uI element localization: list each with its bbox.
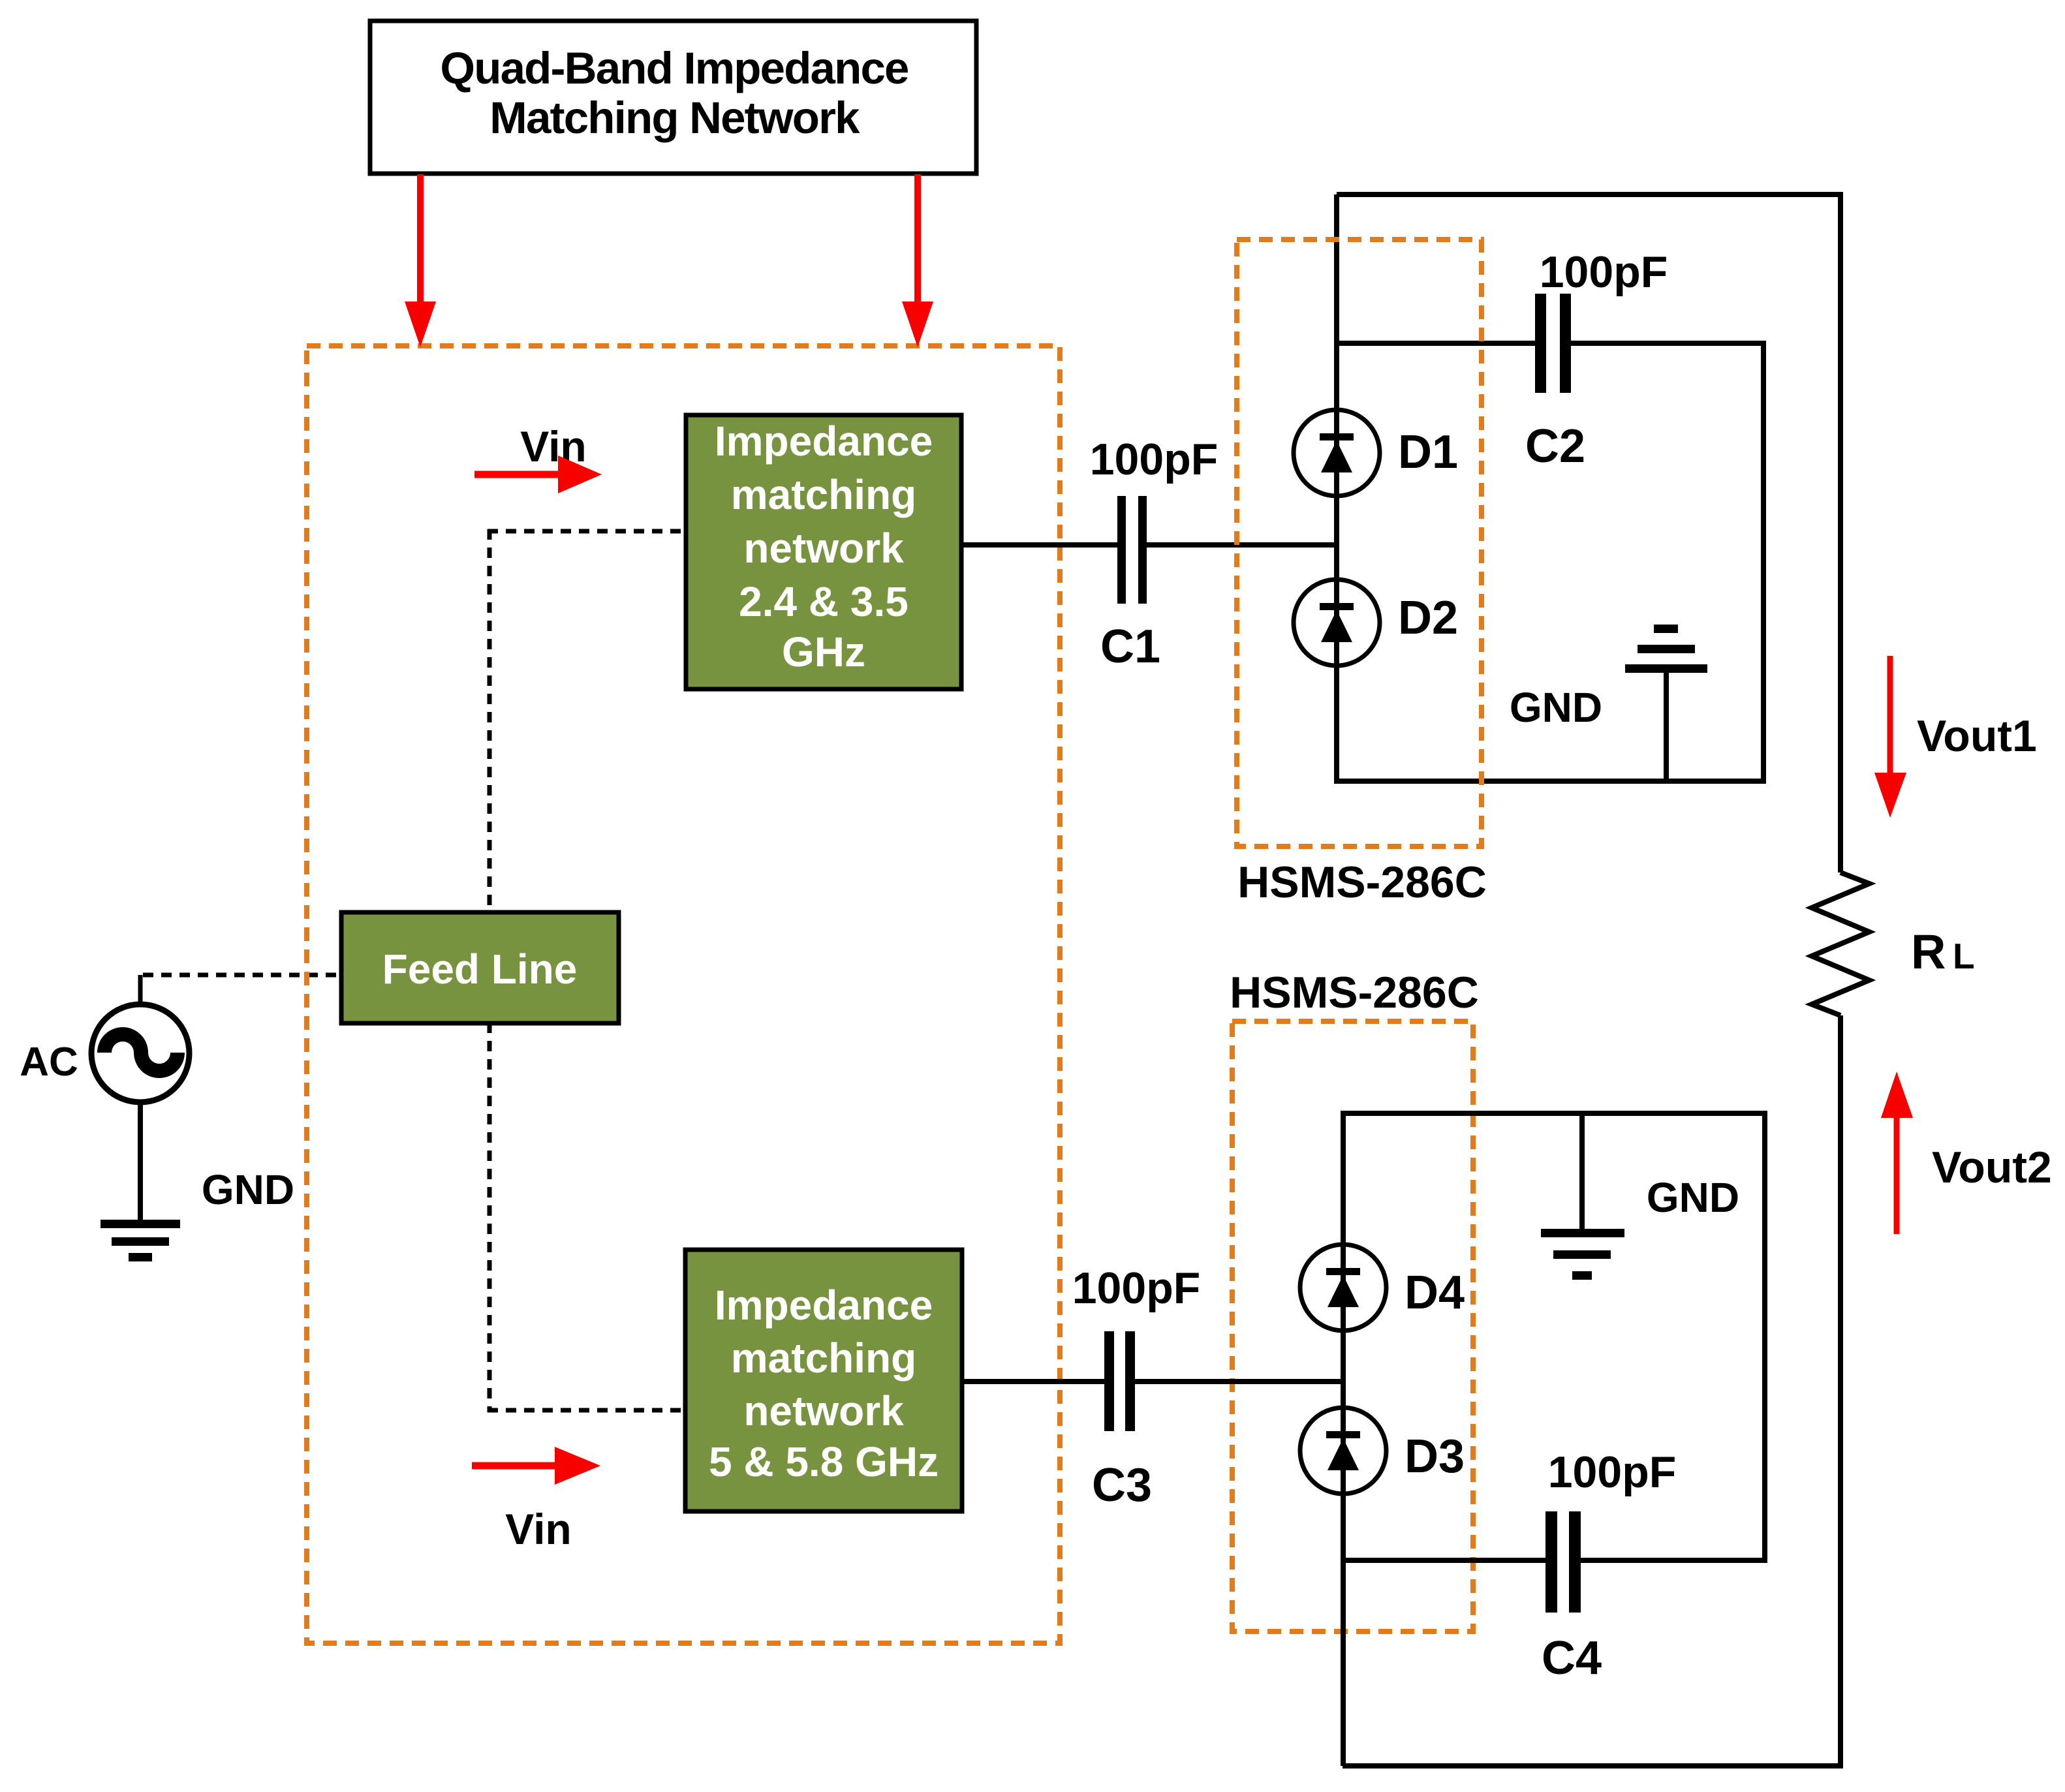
resistor RL	[1812, 873, 1869, 1015]
svg-text:GHz: GHz	[782, 628, 865, 675]
svg-text:Quad-Band Impedance: Quad-Band Impedance	[440, 43, 908, 93]
impedance matching network 5 & 5.8 GHz block	[685, 1250, 962, 1511]
svg-text:Vout2: Vout2	[1932, 1143, 2052, 1192]
Quad-Band Impedance Matching Network box	[370, 21, 976, 174]
svg-text:network: network	[743, 1387, 904, 1434]
ground rectifier 1 (inverted)	[1510, 625, 1707, 781]
svg-text:Vout1: Vout1	[1917, 711, 2037, 761]
red arrow from block to boundary left	[405, 174, 436, 347]
Feed Line block	[341, 912, 619, 1023]
svg-text:2.4 & 3.5: 2.4 & 3.5	[739, 578, 908, 625]
svg-text:D1: D1	[1398, 426, 1458, 478]
svg-text:D2: D2	[1398, 592, 1458, 644]
wire C1 to diode node	[1147, 542, 1339, 548]
svg-text:100pF: 100pF	[1540, 247, 1668, 297]
HSMS-286C box 2	[1232, 1021, 1473, 1631]
capacitor C4	[1542, 1447, 1676, 1684]
svg-text:C2: C2	[1525, 420, 1585, 472]
wire RL to bottom rail	[1343, 1015, 1840, 1766]
svg-text:network: network	[743, 525, 904, 572]
wire rectifier 1 inner top left segment	[1337, 341, 1535, 346]
svg-text:matching: matching	[731, 471, 916, 518]
svg-text:Vin: Vin	[505, 1505, 571, 1553]
diode D1	[1294, 410, 1380, 496]
wire dashed AC to Feed Line	[143, 973, 346, 978]
wire rectifier 2 inner loop (top edge, right edge, bottom-right segment)	[1341, 1113, 1765, 1560]
svg-text:R: R	[1911, 925, 1946, 979]
svg-text:Feed Line: Feed Line	[382, 946, 578, 993]
quad-band impedance matching network dashed boundary	[307, 346, 1060, 1643]
svg-text:C1: C1	[1100, 621, 1160, 673]
wire dashed to matching network 1	[488, 529, 686, 534]
svg-text:GND: GND	[1510, 684, 1602, 731]
svg-text:AC: AC	[20, 1040, 78, 1085]
svg-text:matching: matching	[731, 1335, 916, 1382]
svg-text:Impedance: Impedance	[715, 1282, 933, 1329]
red arrow from block to boundary right	[902, 174, 933, 347]
diode D1 symbol	[1320, 426, 1458, 478]
svg-text:HSMS-286C: HSMS-286C	[1230, 968, 1479, 1017]
wire dashed to matching network 2	[488, 1408, 685, 1413]
svg-text:C3: C3	[1092, 1459, 1152, 1511]
capacitor C2	[1525, 247, 1668, 472]
svg-text:100pF: 100pF	[1072, 1263, 1201, 1313]
AC source	[20, 975, 189, 1221]
wire diode chain 1	[1334, 194, 1339, 781]
ground AC	[101, 1166, 294, 1261]
svg-text:HSMS-286C: HSMS-286C	[1237, 857, 1487, 907]
Vin arrow top	[474, 422, 602, 493]
wire rectifier 1 inner loop (top right segment, right edge, bottom edge)	[1334, 343, 1763, 781]
Vout2 arrow	[1881, 1072, 2052, 1234]
wire inner bottom left segment 2	[1341, 1558, 1545, 1563]
diode D4 symbol	[1326, 1267, 1465, 1319]
impedance matching network 2.4 & 3.5 GHz block	[686, 415, 961, 689]
svg-text:5 & 5.8 GHz: 5 & 5.8 GHz	[709, 1438, 939, 1485]
svg-text:C4: C4	[1542, 1632, 1602, 1684]
wire matching1 to C1	[961, 542, 1117, 548]
svg-text:Vin: Vin	[520, 422, 586, 471]
diode D3 symbol	[1326, 1430, 1465, 1483]
svg-text:GND: GND	[1647, 1174, 1739, 1221]
diode D2	[1294, 579, 1380, 666]
capacitor C1	[1090, 435, 1219, 673]
svg-text:Matching Network: Matching Network	[489, 93, 860, 143]
svg-text:Impedance: Impedance	[715, 418, 933, 465]
ground rectifier 2	[1541, 1113, 1739, 1280]
wire diode chain 2	[1341, 1113, 1346, 1766]
capacitor C3	[1072, 1263, 1201, 1511]
diode D3	[1300, 1408, 1386, 1494]
svg-text:GND: GND	[202, 1166, 294, 1213]
Vin arrow bottom	[472, 1447, 600, 1553]
wire matching2 to C3	[962, 1379, 1104, 1384]
svg-text:100pF: 100pF	[1548, 1447, 1677, 1497]
wire top rail rectifier 1	[1337, 194, 1840, 873]
svg-text:D4: D4	[1405, 1267, 1465, 1319]
HSMS-286C box 1	[1237, 239, 1482, 846]
diode D2 symbol	[1320, 592, 1458, 644]
Vout1 arrow	[1874, 656, 2037, 818]
wire dashed vertical feed bus	[488, 529, 492, 1412]
svg-text:D3: D3	[1405, 1430, 1465, 1483]
svg-text:L: L	[1953, 936, 1975, 976]
wire C3 to diode node 2	[1135, 1379, 1346, 1384]
diode D4	[1300, 1244, 1386, 1331]
svg-text:100pF: 100pF	[1090, 435, 1219, 484]
